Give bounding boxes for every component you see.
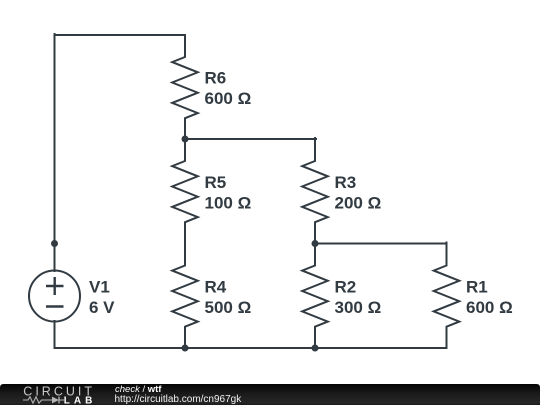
svg-text:R3: R3 (335, 173, 357, 192)
svg-text:100 Ω: 100 Ω (205, 193, 252, 212)
wire left (top corner down to V1 plus terminal) (54, 34, 56, 271)
logo squiggle: wire, resistor, diode (23, 397, 64, 403)
svg-text:LAB: LAB (64, 396, 97, 405)
svg-text:R4: R4 (205, 277, 227, 296)
svg-text:600 Ω: 600 Ω (205, 89, 252, 108)
footer bar (0, 384, 540, 405)
svg-text:500 Ω: 500 Ω (205, 298, 252, 317)
svg-text:V1: V1 (89, 277, 110, 296)
voltage source V1 circle (29, 271, 80, 322)
svg-text:300 Ω: 300 Ω (335, 298, 382, 317)
svg-text:6 V: 6 V (89, 298, 115, 317)
svg-text:R5: R5 (205, 173, 227, 192)
V1 minus sign (46, 305, 64, 307)
resistor R3 (with corner wire from top rail) (302, 138, 328, 244)
svg-text:R1: R1 (466, 277, 488, 296)
node at R6/R5/wire junction (182, 136, 189, 143)
wire top (V1 to R6) (55, 34, 186, 36)
node at R4 bottom (182, 345, 189, 352)
wire node to R1 (315, 243, 447, 245)
svg-text:200 Ω: 200 Ω (335, 193, 382, 212)
resistor R6 (172, 35, 198, 139)
svg-text:600 Ω: 600 Ω (466, 298, 513, 317)
resistor R5 (172, 139, 198, 244)
node junction on left wire (51, 240, 58, 247)
wire node to R3 (185, 138, 316, 140)
resistor R1 (with corner wire from mid rail) (434, 243, 460, 349)
svg-text:R6: R6 (205, 69, 227, 88)
node at R2 bottom (312, 345, 319, 352)
resistor R4 (172, 244, 198, 349)
node at R3 bottom (312, 240, 319, 247)
svg-text:R2: R2 (335, 277, 357, 296)
wire V1 minus terminal to bottom rail (54, 321, 56, 348)
svg-text:http://circuitlab.com/cn967gk: http://circuitlab.com/cn967gk (115, 394, 243, 405)
resistor R2 (302, 244, 328, 349)
V1 plus sign (46, 277, 64, 295)
wire bottom rail (55, 347, 447, 349)
